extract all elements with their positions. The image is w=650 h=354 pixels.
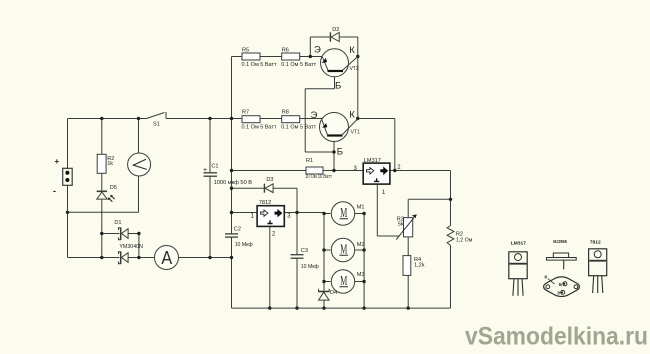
svg-text:R5: R5 [242, 48, 249, 54]
svg-text:К: К [349, 45, 355, 56]
svg-text:D4: D4 [330, 290, 337, 296]
svg-text:1000 мкф 50 В: 1000 мкф 50 В [214, 180, 253, 186]
svg-text:C1: C1 [211, 164, 218, 170]
svg-text:R6: R6 [282, 48, 289, 54]
svg-text:1,2k: 1,2k [414, 263, 425, 269]
svg-text:R1: R1 [306, 158, 313, 164]
svg-text:D1: D1 [114, 220, 121, 226]
svg-text:LM317: LM317 [511, 241, 527, 246]
svg-text:VT1: VT1 [351, 130, 360, 136]
svg-text:0.1 Ом 5 Ватт: 0.1 Ом 5 Ватт [281, 62, 316, 68]
svg-text:M1: M1 [357, 205, 365, 211]
svg-text:10 Мкф: 10 Мкф [301, 264, 319, 270]
svg-text:-: - [53, 186, 56, 196]
svg-text:+: + [55, 157, 60, 166]
svg-text:10 Ом 10 Ватт: 10 Ом 10 Ватт [305, 174, 332, 180]
svg-text:К: К [545, 275, 548, 280]
svg-text:0.1 Ом 5 Ватт: 0.1 Ом 5 Ватт [242, 125, 277, 131]
svg-text:vSamodelkina.ru: vSamodelkina.ru [465, 323, 648, 351]
svg-text:MJ2955: MJ2955 [553, 239, 567, 244]
svg-text:R7: R7 [242, 110, 249, 116]
svg-text:7812: 7812 [259, 200, 271, 206]
svg-text:5k: 5k [398, 222, 404, 228]
svg-text:К: К [349, 110, 355, 121]
svg-text:VT2: VT2 [350, 66, 359, 72]
svg-text:S1: S1 [153, 121, 160, 127]
svg-text:M: M [340, 205, 347, 220]
svg-text:D2: D2 [332, 27, 339, 33]
svg-text:1,2 Ом: 1,2 Ом [456, 238, 473, 244]
svg-text:0.1 Ом 5 Ватт: 0.1 Ом 5 Ватт [281, 125, 316, 131]
svg-text:Э: Э [557, 290, 560, 295]
svg-text:D5: D5 [110, 185, 117, 191]
svg-text:R8: R8 [282, 110, 289, 116]
svg-text:C3: C3 [301, 248, 308, 254]
svg-text:7812: 7812 [590, 240, 602, 245]
svg-text:1k: 1k [107, 161, 113, 167]
svg-text:Э: Э [314, 45, 321, 56]
svg-text:M2: M2 [357, 242, 365, 248]
svg-text:M: M [340, 241, 347, 256]
svg-text:YM3040N: YM3040N [119, 244, 143, 250]
svg-text:M3: M3 [357, 272, 365, 278]
svg-text:Б: Б [337, 147, 343, 158]
svg-text:D3: D3 [266, 177, 273, 183]
svg-text:+: + [203, 167, 207, 174]
svg-text:Э: Э [311, 110, 318, 121]
svg-text:M: M [340, 273, 347, 288]
svg-text:0.1 Ом 5 Ватт: 0.1 Ом 5 Ватт [242, 62, 277, 68]
svg-text:10 Мкф: 10 Мкф [235, 242, 253, 248]
svg-text:A: A [161, 247, 172, 268]
svg-text:LM317: LM317 [364, 158, 381, 164]
svg-text:Б: Б [335, 81, 341, 92]
svg-text:Б: Б [559, 282, 562, 287]
svg-text:C2: C2 [234, 227, 241, 233]
